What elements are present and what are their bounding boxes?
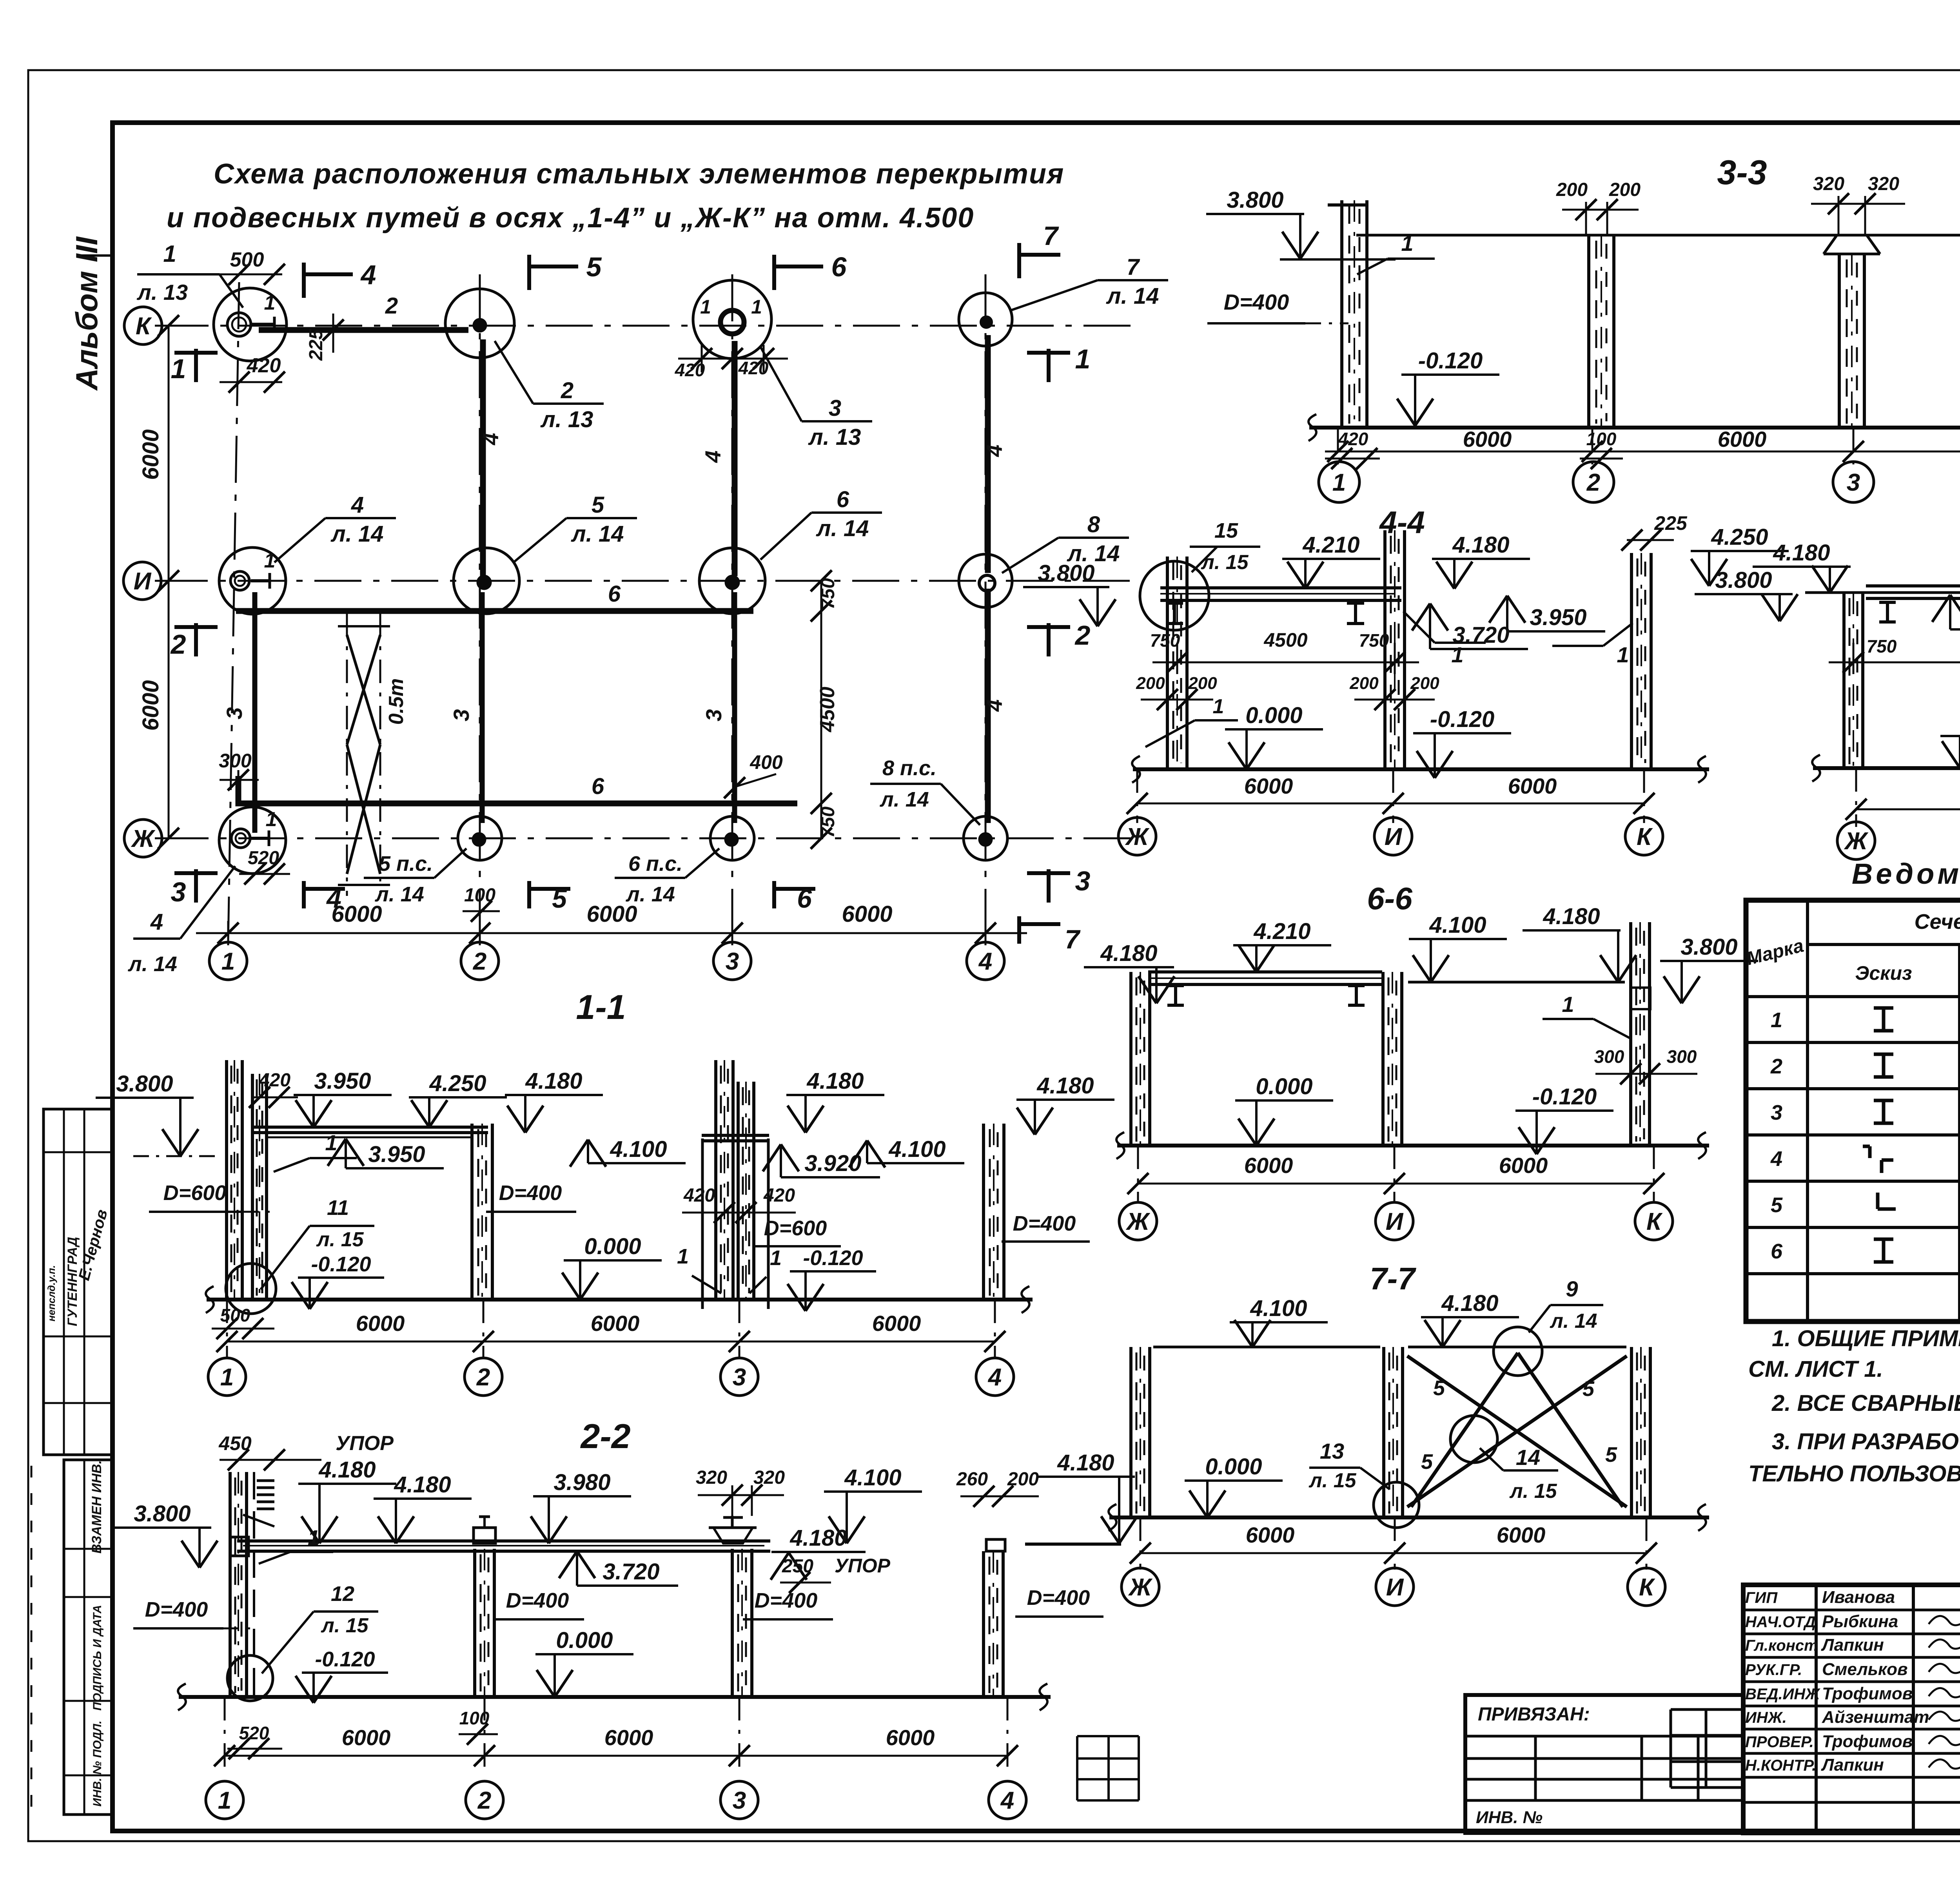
- svg-text:6000: 6000: [1244, 774, 1293, 798]
- svg-text:6000: 6000: [872, 1311, 921, 1336]
- section 1-1 axis circle 1: [208, 1358, 246, 1396]
- section 3-3 dim 320 320 col3: [1811, 174, 1905, 235]
- plan bottom dimension line 6000x3: [196, 901, 1027, 945]
- element table row 1: [1771, 1001, 1960, 1042]
- svg-text:7-7: 7-7: [1370, 1261, 1416, 1296]
- section 2-2 column axis2: [475, 1549, 494, 1697]
- svg-text:9: 9: [1566, 1276, 1578, 1301]
- section 1-1 label D=600 axis1: [149, 1181, 274, 1212]
- plan leader 5ps l.14 to J2: [364, 848, 466, 906]
- section 6-6 axis circle I: [1376, 1202, 1413, 1240]
- svg-text:5: 5: [1421, 1450, 1433, 1474]
- svg-text:Схема расположения стальных: Схема расположения стальных элементов пе…: [214, 158, 1064, 190]
- svg-text:5: 5: [1583, 1377, 1595, 1401]
- section 1-1 title: [576, 988, 626, 1026]
- svg-text:1: 1: [1401, 231, 1413, 256]
- svg-text:3.800: 3.800: [1227, 187, 1283, 213]
- section 2-2 level 4.180 second: [374, 1472, 472, 1543]
- axis circle I: [123, 562, 161, 600]
- svg-text:СМ. ЛИСТ 1.: СМ. ЛИСТ 1.: [1748, 1356, 1883, 1382]
- section 7-7 brace lambda left: [1411, 1353, 1518, 1507]
- svg-text:3: 3: [701, 709, 726, 721]
- plan node circle K4: [959, 293, 1012, 346]
- svg-text:1-1: 1-1: [576, 988, 626, 1026]
- section 4-4 monorail beam: [1160, 588, 1401, 600]
- svg-text:1: 1: [308, 1526, 319, 1550]
- svg-text:420: 420: [683, 1185, 715, 1206]
- svg-text:2: 2: [561, 378, 573, 403]
- svg-text:420: 420: [738, 358, 769, 378]
- svg-text:7: 7: [1065, 925, 1081, 954]
- section 1-1 level 4.100 mid up: [570, 1137, 686, 1167]
- svg-text:0.5т: 0.5т: [385, 678, 408, 725]
- cut mark 6 top: [774, 252, 847, 290]
- svg-text:-0.120: -0.120: [1532, 1084, 1597, 1109]
- plan node circle I4: [959, 554, 1012, 607]
- section 4-4 column J: [1167, 557, 1187, 769]
- svg-text:420: 420: [675, 360, 705, 380]
- svg-text:7: 7: [1043, 221, 1059, 251]
- section 2-2 dim 100 below axis2: [459, 1708, 498, 1745]
- section 2-2 dimension line: [214, 1697, 1018, 1773]
- section 4-4 beam hanger I left: [1166, 603, 1183, 624]
- section 7-7 brace diagonal K-I down: [1407, 1356, 1627, 1507]
- section 7-7 column J: [1131, 1347, 1150, 1517]
- section 5-5 monorail beam: [1866, 586, 1960, 598]
- svg-text:л. 14: л. 14: [330, 521, 384, 547]
- section 6-6 dimension line: [1127, 1146, 1664, 1201]
- svg-text:D=400: D=400: [1027, 1586, 1090, 1610]
- svg-text:л. 14: л. 14: [879, 788, 929, 811]
- svg-text:4.210: 4.210: [1302, 532, 1359, 558]
- cut mark 7 bottom: [1019, 916, 1081, 954]
- axis circle J: [124, 819, 162, 857]
- svg-text:-0.120: -0.120: [315, 1648, 375, 1671]
- svg-text:и подвесных путей в осях „1-: и подвесных путей в осях „1-4” и „Ж-К” н…: [167, 202, 974, 234]
- svg-text:2: 2: [1770, 1055, 1782, 1078]
- plan small dim 420 at K1: [220, 354, 285, 393]
- svg-text:4: 4: [987, 1364, 1002, 1391]
- section 4-4 ground line: [1132, 756, 1709, 783]
- svg-text:4500: 4500: [816, 687, 839, 732]
- svg-text:И: И: [134, 568, 152, 595]
- svg-text:ГУТЕННГРАД: ГУТЕННГРАД: [65, 1237, 80, 1326]
- svg-text:6000: 6000: [1497, 1523, 1546, 1547]
- svg-text:Трофимов: Трофимов: [1822, 1684, 1913, 1703]
- svg-text:1: 1: [1213, 695, 1224, 718]
- plan axis 3 line: [731, 274, 733, 943]
- svg-text:Ж: Ж: [1844, 828, 1869, 855]
- svg-text:1: 1: [751, 296, 762, 318]
- left margin dashed edge: [31, 1466, 33, 1811]
- section 2-2 base detail circle axis1: [227, 1655, 273, 1701]
- section 1-1 level 4.100 right up: [849, 1137, 964, 1167]
- section 1-1 dim 500 below axis1: [212, 1305, 274, 1339]
- section 7-7 level 4.100: [1230, 1296, 1328, 1347]
- svg-text:420: 420: [259, 1070, 290, 1091]
- svg-text:4.180: 4.180: [1452, 532, 1509, 558]
- plan leader 6 l.14 to I3: [760, 487, 882, 560]
- section 4-4 column K: [1632, 553, 1651, 769]
- svg-text:D=400: D=400: [499, 1181, 562, 1205]
- section 6-6 K column bracket: [1631, 988, 1650, 1009]
- svg-text:4.210: 4.210: [1253, 919, 1310, 944]
- svg-text:Ж: Ж: [131, 825, 156, 852]
- section 3-3 ground line: [1308, 414, 1960, 441]
- svg-text:750: 750: [1359, 630, 1389, 651]
- svg-text:400: 400: [750, 751, 783, 773]
- svg-text:л. 13: л. 13: [808, 424, 861, 450]
- svg-text:-0.120: -0.120: [803, 1246, 863, 1270]
- svg-text:4: 4: [1000, 1787, 1014, 1814]
- section 1-1 column axis4: [984, 1124, 1004, 1300]
- svg-text:1: 1: [220, 1364, 234, 1391]
- plan level 4.180 bottom right: [1084, 941, 1174, 1003]
- svg-text:1: 1: [218, 1787, 231, 1814]
- section 7-7 ground line: [1109, 1504, 1709, 1531]
- svg-text:D=400: D=400: [1224, 290, 1289, 314]
- plan dim 300 axis1: [219, 750, 259, 803]
- svg-text:ГИП: ГИП: [1745, 1589, 1778, 1606]
- section 2-2 dim 450 upor: [218, 1432, 394, 1697]
- svg-text:6000: 6000: [1718, 427, 1767, 451]
- svg-text:4.180: 4.180: [1100, 941, 1157, 966]
- svg-text:4.100: 4.100: [844, 1465, 901, 1490]
- section 6-6 column K: [1631, 922, 1650, 1146]
- plan axis circle 4: [967, 942, 1004, 980]
- section 7-7 level 0.000: [1185, 1454, 1283, 1517]
- section 2-2 main beam: [237, 1541, 770, 1551]
- section 6-6 beam hanger I left: [1167, 986, 1184, 1005]
- plan node circle K1 with column rings: [214, 288, 287, 361]
- svg-text:4.180: 4.180: [1441, 1291, 1498, 1316]
- svg-text:420: 420: [1338, 429, 1368, 449]
- section 2-2 dims 320 320 axis3: [696, 1467, 785, 1516]
- section 5-5 column J: [1844, 593, 1863, 768]
- svg-text:К: К: [1646, 1208, 1663, 1235]
- section 4-4 dim 225 K top: [1621, 512, 1688, 551]
- plan dims 420 420 at K3 node: [675, 296, 788, 380]
- section 2-2 axis circle 2: [466, 1781, 503, 1819]
- section 3-3 top chord line 4.180: [1356, 234, 1960, 237]
- svg-text:2: 2: [476, 1364, 490, 1391]
- section 2-2 beam left bracket: [230, 1537, 249, 1556]
- svg-text:ИНВ. № ПОДЛ.: ИНВ. № ПОДЛ.: [91, 1720, 104, 1806]
- svg-text:4: 4: [478, 433, 503, 445]
- svg-text:1: 1: [325, 1130, 337, 1155]
- section 5-5 dim chain 750 4500 750: [1829, 631, 1960, 674]
- section 4-4 leader 1 at I: [1403, 611, 1486, 667]
- svg-text:260: 260: [956, 1469, 988, 1490]
- svg-text:0.000: 0.000: [1205, 1454, 1262, 1479]
- svg-text:6000: 6000: [886, 1725, 935, 1750]
- svg-text:л. 14: л. 14: [127, 952, 177, 976]
- svg-text:УПОР: УПОР: [336, 1432, 394, 1455]
- section 1-1 axis circle 3: [720, 1358, 758, 1396]
- section 1-1 axis circle 4: [976, 1358, 1014, 1396]
- section 7-7 title: [1370, 1261, 1416, 1296]
- section 4-4 leader 15 l.15: [1190, 519, 1260, 574]
- section 1-1 level 4.180 axis4: [1016, 1073, 1114, 1135]
- section 1-1 leader 1 axis3 left: [677, 1245, 721, 1293]
- section 2-2 column axis1: [230, 1472, 254, 1697]
- svg-text:1: 1: [1075, 344, 1091, 374]
- section 1-1 label D=400 axis2: [486, 1181, 576, 1212]
- svg-text:Ведомость элементов: Ведомость элементов: [1852, 857, 1960, 890]
- svg-text:520: 520: [239, 1723, 269, 1743]
- section 2-2 leader 12 l.15: [262, 1582, 378, 1673]
- section 5-5 level 3.980 up: [1932, 595, 1960, 629]
- plan axis circle 2: [461, 942, 499, 980]
- section 2-2 label D=400 axis4: [1015, 1586, 1103, 1617]
- svg-text:2: 2: [473, 948, 486, 975]
- privyazan box: [1465, 1695, 1743, 1833]
- notes item 3: [1748, 1428, 1960, 1486]
- svg-text:Рыбкина: Рыбкина: [1822, 1612, 1898, 1631]
- section 7-7 axis circle I: [1376, 1568, 1414, 1606]
- section 2-2 level 3.980: [531, 1470, 631, 1543]
- section 6-6 dims 300 300 at K: [1594, 1046, 1697, 1084]
- section 1-1 leader 1 axis3 right: [750, 1246, 782, 1293]
- svg-text:Трофимов: Трофимов: [1822, 1732, 1913, 1751]
- svg-text:D=400: D=400: [1013, 1212, 1076, 1235]
- section 2-2 label D=400 axis3: [743, 1589, 833, 1619]
- plan monorail cross brace 0.5t: [338, 613, 408, 896]
- svg-text:5: 5: [552, 884, 567, 914]
- svg-text:И: И: [1386, 1574, 1404, 1601]
- svg-text:Ж: Ж: [1125, 823, 1150, 850]
- section 2-2 dim 520 below axis1: [227, 1723, 282, 1759]
- svg-text:1: 1: [163, 241, 176, 267]
- svg-text:0.000: 0.000: [1256, 1074, 1312, 1099]
- svg-text:ПОДПИСЬ И ДАТА: ПОДПИСЬ И ДАТА: [91, 1605, 104, 1711]
- section 5-5 level 0.000: [1940, 709, 1960, 768]
- svg-text:500: 500: [230, 248, 264, 271]
- section 2-2 axis circle 1: [206, 1781, 243, 1819]
- cut mark 5 bottom: [529, 881, 570, 914]
- section 7-7 brace diagonal I-K down: [1407, 1356, 1627, 1507]
- notes item 2: [1771, 1390, 1960, 1416]
- section 7-7 dimension line: [1130, 1517, 1657, 1570]
- svg-text:6000: 6000: [138, 680, 163, 731]
- section 4-4 beam hanger I right: [1347, 603, 1364, 624]
- svg-text:-0.120: -0.120: [1430, 707, 1494, 732]
- plan node circle J2: [458, 816, 502, 860]
- section 5-5 axis circle J: [1837, 822, 1875, 859]
- plan axis circle 3: [713, 942, 751, 980]
- svg-text:4.100: 4.100: [1250, 1296, 1307, 1321]
- section 1-1 level -0.120 axis1: [292, 1253, 384, 1309]
- section 7-7 brace lambda right: [1518, 1353, 1623, 1507]
- title block signature columns: [1743, 1585, 1960, 1833]
- section 1-1 monorail beam: [253, 1127, 488, 1137]
- svg-text:200: 200: [1136, 674, 1165, 693]
- plan leader 4 l.14 to J1 bottom-left: [127, 866, 235, 976]
- svg-text:1: 1: [700, 296, 711, 318]
- svg-text:1: 1: [1617, 642, 1629, 667]
- section 4-4 dims 200 200 at J base: [1136, 674, 1217, 710]
- section 1-1 level 3.950: [294, 1068, 392, 1127]
- section 2-2 axis circle 4: [989, 1781, 1026, 1819]
- section 6-6 right top line: [1408, 981, 1625, 984]
- section 4-4 level 4.210: [1282, 532, 1380, 589]
- section 5-5 level 3.800 left: [1695, 567, 1798, 621]
- plan leader 4 l.14 to I1: [274, 492, 396, 562]
- svg-text:2: 2: [385, 293, 398, 319]
- svg-text:4: 4: [982, 444, 1007, 457]
- svg-text:5: 5: [592, 492, 604, 518]
- axis circle K: [124, 307, 162, 344]
- svg-text:320: 320: [1813, 174, 1844, 194]
- section 6-6 column J: [1131, 972, 1150, 1146]
- svg-text:6000: 6000: [842, 901, 892, 927]
- element table row 4: [1770, 1141, 1960, 1181]
- svg-text:1: 1: [677, 1245, 689, 1268]
- plan leader 8ps l.14 to J4: [870, 756, 980, 825]
- svg-text:5 п.с.: 5 п.с.: [379, 852, 433, 876]
- element table row 6: [1771, 1234, 1960, 1273]
- section 4-4 dim chain 750 4500 750: [1150, 629, 1419, 674]
- svg-text:УПОР: УПОР: [835, 1555, 891, 1577]
- plan label 1 inside J1: [266, 808, 277, 831]
- plan leader 2 l.13 to K2: [495, 341, 604, 432]
- svg-text:4.250: 4.250: [429, 1071, 486, 1096]
- svg-text:4: 4: [150, 909, 163, 935]
- element table row 5: [1771, 1187, 1960, 1227]
- svg-text:420: 420: [247, 354, 281, 377]
- svg-text:4.180: 4.180: [806, 1068, 864, 1094]
- plan leader 3 l.13 to K3: [760, 347, 872, 450]
- svg-text:3-3: 3-3: [1717, 153, 1767, 192]
- plan dim chain 750 4500 750 right: [811, 570, 839, 849]
- plan axis 1 line: [228, 282, 239, 943]
- section 5-5 beam hanger I left: [1879, 602, 1896, 622]
- svg-text:2-2: 2-2: [580, 1417, 630, 1456]
- plan small dim 225 vertical: [306, 314, 344, 361]
- section 5-5 ground line: [1812, 755, 1960, 781]
- section 1-1 level 3.920 up: [763, 1144, 880, 1177]
- svg-text:1: 1: [264, 549, 276, 572]
- left margin upper stamp box: [44, 1109, 113, 1455]
- svg-text:6: 6: [837, 487, 849, 512]
- svg-text:14: 14: [1516, 1445, 1540, 1470]
- left margin lower stamp box: [64, 1460, 113, 1815]
- svg-text:3: 3: [1847, 469, 1860, 496]
- svg-text:750: 750: [1150, 630, 1180, 651]
- svg-text:1: 1: [1451, 642, 1463, 667]
- svg-text:750: 750: [1867, 636, 1897, 656]
- svg-text:Н.КОНТР.: Н.КОНТР.: [1745, 1757, 1816, 1774]
- svg-text:5: 5: [1433, 1376, 1445, 1400]
- section 2-2 level 4.180 first: [298, 1457, 396, 1543]
- svg-text:2: 2: [477, 1787, 491, 1814]
- section 3-3 dimension line 6000s: [1325, 427, 1960, 470]
- svg-text:7: 7: [1127, 254, 1140, 280]
- plan axis K line: [162, 325, 1133, 327]
- svg-text:D=600: D=600: [163, 1181, 227, 1205]
- section 3-3 column axis3 with cap: [1824, 235, 1880, 428]
- svg-text:6: 6: [592, 774, 604, 799]
- section 4-4 level 4.250: [1691, 524, 1789, 586]
- section 7-7 leader 14 l.15: [1480, 1445, 1558, 1503]
- section 3-3 column axis2: [1589, 235, 1614, 428]
- section 1-1 level 4.250: [409, 1071, 507, 1127]
- svg-text:л. 15: л. 15: [1509, 1480, 1557, 1503]
- svg-text:4: 4: [1770, 1147, 1782, 1171]
- plan node circle J1: [219, 807, 286, 874]
- section 2-2 right rail stub axis4: [986, 1539, 1121, 1551]
- plan node circle I1: [219, 547, 286, 614]
- plan leader 6ps l.14 to J3: [615, 848, 719, 906]
- svg-text:320: 320: [753, 1467, 785, 1488]
- element table heading: [1852, 857, 1960, 890]
- svg-text:6: 6: [797, 884, 812, 914]
- section 4-4 level 3.720 up: [1412, 604, 1528, 649]
- section 3-3 dim 420 col1: [1325, 429, 1380, 469]
- svg-text:4: 4: [978, 948, 992, 975]
- svg-text:НАЧ.ОТД: НАЧ.ОТД: [1745, 1613, 1816, 1631]
- svg-text:500: 500: [220, 1305, 250, 1325]
- section 2-2 level 4.180 up mid: [771, 1525, 866, 1580]
- section 7-7 leader 9 l.14: [1529, 1276, 1603, 1332]
- plan leader 1 l.13 to K1: [136, 241, 243, 308]
- section 2-2 level 3.800: [113, 1501, 218, 1568]
- section 1-1 label D=600 axis3: [753, 1216, 841, 1246]
- svg-text:л. 14: л. 14: [1067, 541, 1120, 566]
- plan beam 4 axis4 lower: [982, 589, 1007, 823]
- svg-text:-0.120: -0.120: [1418, 348, 1483, 373]
- section 2-2 label D=400 axis1: [133, 1598, 251, 1628]
- svg-text:6: 6: [608, 581, 621, 607]
- plan level 3.800 at I4: [1023, 560, 1116, 626]
- svg-text:И: И: [1386, 1208, 1404, 1235]
- svg-text:ИНЖ.: ИНЖ.: [1745, 1709, 1787, 1726]
- svg-text:К: К: [136, 313, 152, 340]
- svg-text:D=400: D=400: [506, 1589, 569, 1612]
- section 1-1 leader 11 l.15: [261, 1196, 374, 1289]
- section 2-2 level 3.720 up: [559, 1551, 678, 1586]
- section 7-7 left top line 4.100: [1153, 1346, 1380, 1349]
- section 4-4 axis circle K: [1625, 818, 1663, 855]
- svg-text:6000: 6000: [138, 429, 163, 480]
- plan dim 100 below J2: [463, 885, 500, 922]
- section 4-4 detail circle 15: [1140, 561, 1209, 630]
- section 6-6 column I: [1383, 972, 1402, 1146]
- section 3-3 leader 1: [1357, 231, 1435, 274]
- plan axis J line: [162, 838, 1133, 839]
- svg-text:15: 15: [1214, 519, 1238, 542]
- section 3-3 title: [1717, 153, 1767, 192]
- svg-text:6000: 6000: [1499, 1153, 1548, 1178]
- svg-text:ПРОВЕР.: ПРОВЕР.: [1745, 1733, 1814, 1751]
- section 1-1 level 4.180 left: [505, 1068, 603, 1133]
- section 1-1 column axis2: [472, 1124, 492, 1300]
- svg-text:3.950: 3.950: [314, 1068, 371, 1094]
- svg-text:4.180: 4.180: [1773, 540, 1830, 566]
- section 1-1 level 3.950 up: [328, 1139, 444, 1168]
- svg-text:И: И: [1385, 823, 1403, 850]
- section 2-2 level -0.120: [296, 1648, 388, 1703]
- svg-text:ВЕД.ИНЖ: ВЕД.ИНЖ: [1745, 1686, 1820, 1703]
- section 7-7 leader 13 l.15: [1308, 1439, 1390, 1492]
- svg-text:Иванова: Иванова: [1822, 1588, 1895, 1607]
- svg-text:D=400: D=400: [145, 1598, 208, 1621]
- svg-text:750: 750: [818, 807, 838, 838]
- svg-text:4.180: 4.180: [318, 1457, 376, 1483]
- section 7-7 level 4.180: [1421, 1291, 1519, 1347]
- svg-text:5: 5: [1771, 1193, 1783, 1217]
- cut mark 2 left: [170, 623, 218, 660]
